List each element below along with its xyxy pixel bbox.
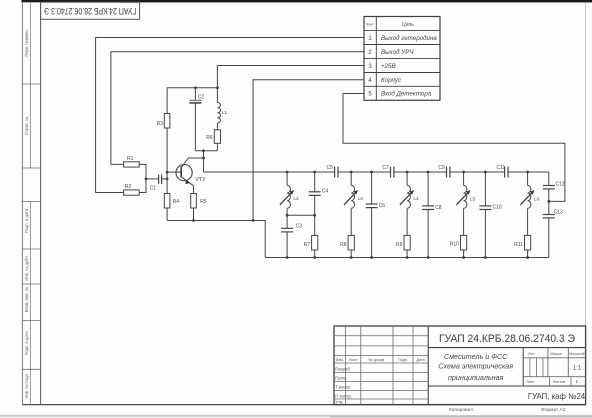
svg-text:Н.контр.: Н.контр. <box>335 393 352 398</box>
svg-text:C10: C10 <box>493 204 502 210</box>
svg-text:1: 1 <box>576 379 579 384</box>
svg-text:Масса: Масса <box>550 352 562 356</box>
svg-text:Конт: Конт <box>366 22 374 26</box>
svg-text:Схема электрическая: Схема электрическая <box>438 361 513 370</box>
svg-text:L2: L2 <box>293 196 299 202</box>
svg-text:R8: R8 <box>340 242 347 248</box>
svg-text:R11: R11 <box>514 242 523 248</box>
svg-text:C6: C6 <box>379 203 386 209</box>
svg-text:+25В: +25В <box>381 63 396 70</box>
svg-text:Копировал: Копировал <box>449 407 473 413</box>
svg-text:Масштаб: Масштаб <box>569 352 584 356</box>
svg-text:C8: C8 <box>435 205 442 211</box>
svg-text:R3: R3 <box>157 121 164 127</box>
svg-text:ГУАП 24.КРБ 28.06.2740.3 Э: ГУАП 24.КРБ 28.06.2740.3 Э <box>44 6 137 16</box>
svg-text:1:1: 1:1 <box>573 366 582 372</box>
svg-text:L5: L5 <box>470 196 476 202</box>
svg-text:принципиальная: принципиальная <box>448 373 504 382</box>
svg-text:Инв. № подл.: Инв. № подл. <box>24 373 29 399</box>
svg-text:Дата: Дата <box>416 358 425 362</box>
svg-text:C1: C1 <box>150 186 157 192</box>
svg-text:R6: R6 <box>206 135 213 141</box>
svg-text:Корпус: Корпус <box>381 77 402 84</box>
svg-text:Подп. и дата: Подп. и дата <box>24 208 29 233</box>
svg-text:Перв. примен.: Перв. примен. <box>24 29 29 56</box>
svg-text:C13: C13 <box>554 209 563 215</box>
svg-text:Разраб.: Разраб. <box>335 366 351 371</box>
svg-text:L4: L4 <box>413 196 419 202</box>
svg-text:Цепь: Цепь <box>402 22 414 28</box>
svg-text:L3: L3 <box>358 196 364 202</box>
svg-text:VT2: VT2 <box>195 177 205 183</box>
svg-text:Взам. инв. №: Взам. инв. № <box>24 286 29 312</box>
svg-text:Подп.: Подп. <box>398 358 408 362</box>
svg-text:L6: L6 <box>534 196 540 202</box>
svg-text:R2: R2 <box>125 184 132 190</box>
svg-text:C4: C4 <box>322 189 329 195</box>
svg-text:C7: C7 <box>382 165 389 171</box>
svg-text:Формат А3: Формат А3 <box>541 407 566 413</box>
svg-text:R5: R5 <box>200 199 207 205</box>
svg-text:Инв. № дубл.: Инв. № дубл. <box>24 255 29 280</box>
svg-text:ГУАП, каф №24: ГУАП, каф №24 <box>528 392 586 401</box>
svg-text:Листов: Листов <box>553 379 566 384</box>
svg-text:ГУАП 24.КРБ.28.06.2740.3 Э: ГУАП 24.КРБ.28.06.2740.3 Э <box>439 333 575 345</box>
svg-text:Т.контр.: Т.контр. <box>335 385 351 390</box>
svg-text:Выход УРЧ: Выход УРЧ <box>381 49 414 56</box>
svg-text:Пров.: Пров. <box>335 376 347 381</box>
svg-text:C3: C3 <box>296 224 303 230</box>
svg-text:R1: R1 <box>127 156 134 162</box>
svg-text:Выход гетеродина: Выход гетеродина <box>381 35 437 42</box>
svg-text:Вход Детектора: Вход Детектора <box>381 91 432 98</box>
svg-text:Изм.: Изм. <box>336 358 344 362</box>
svg-text:C11: C11 <box>497 165 506 171</box>
svg-text:R4: R4 <box>173 199 180 205</box>
svg-text:C5: C5 <box>327 165 334 171</box>
svg-text:Лист: Лист <box>526 379 535 384</box>
svg-text:Лист: Лист <box>349 358 358 362</box>
svg-text:C2: C2 <box>198 94 205 100</box>
svg-text:R10: R10 <box>450 242 459 248</box>
svg-text:Справ. №: Справ. № <box>24 116 29 135</box>
svg-text:Утв.: Утв. <box>335 400 343 405</box>
svg-text:R7: R7 <box>304 242 311 248</box>
svg-text:L1: L1 <box>222 110 228 116</box>
svg-text:R9: R9 <box>396 242 403 248</box>
svg-text:Подп. и дата: Подп. и дата <box>24 331 29 356</box>
svg-text:Смеситель и ФСС: Смеситель и ФСС <box>444 352 508 361</box>
svg-text:C9: C9 <box>438 165 445 171</box>
svg-text:№ докум.: № докум. <box>369 358 386 362</box>
svg-text:Лит.: Лит. <box>528 352 535 356</box>
svg-text:C12: C12 <box>556 181 565 187</box>
